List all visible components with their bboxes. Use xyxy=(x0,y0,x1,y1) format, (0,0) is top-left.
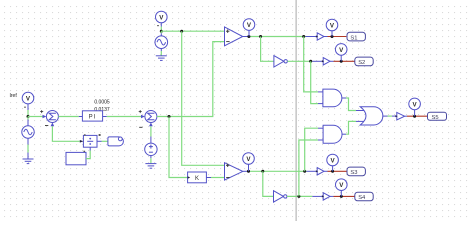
wire U8 output to tag S2 xyxy=(330,60,334,62)
summer U1 (sigma) xyxy=(46,111,58,123)
inverter U10 xyxy=(274,191,284,202)
wire U9 out down to inverter U10 xyxy=(263,171,274,196)
PI controller block xyxy=(82,111,102,121)
sheet border line xyxy=(296,0,297,221)
tag S1 xyxy=(347,32,365,41)
wire X1 to divider bottom xyxy=(86,151,90,159)
wire AND U12 output to OR input xyxy=(346,121,356,134)
svg-text:K: K xyxy=(195,176,199,182)
wire U5 branch down to AND1 top input xyxy=(304,37,318,92)
junction carrier node xyxy=(160,30,163,33)
junction U9 out inverter branch xyxy=(261,170,264,173)
wire node to summer S1 input xyxy=(28,116,43,118)
tag S3 xyxy=(347,167,365,176)
tag S2 xyxy=(355,57,373,66)
AND gate U11 xyxy=(323,89,342,107)
voltmeter probe PR5 (S2) xyxy=(335,44,347,62)
wire V2 to ground xyxy=(27,138,29,159)
junction node control xyxy=(168,115,171,118)
wire probe PR1 to node xyxy=(27,110,29,117)
wire inverter U6 output row xyxy=(287,60,312,62)
buffer U8 (S2 driver) xyxy=(323,58,330,65)
ground GND1 xyxy=(23,159,34,164)
wire divider to current clamp xyxy=(102,140,109,142)
wire V3 to ground xyxy=(150,156,152,164)
junction S1 probe xyxy=(331,35,334,38)
svg-text:Iref: Iref xyxy=(10,93,18,99)
wire OR U13 output to buffer U14 xyxy=(383,115,388,117)
junction U5 out AND branch xyxy=(302,35,305,38)
wire U5 out down to inverter U6 xyxy=(261,37,274,62)
summer U2 (sigma) xyxy=(145,111,157,123)
AC source V2 (Iref source) xyxy=(22,117,34,139)
buffer U7 (S1 driver) xyxy=(317,33,324,40)
summer U2 bottom input arrow and minus label xyxy=(149,122,153,126)
junction S5 probe xyxy=(413,115,416,118)
buffer U16 (S4 driver) xyxy=(323,193,330,200)
svg-text:S2: S2 xyxy=(358,60,365,66)
junction S3 probe xyxy=(331,170,334,173)
buffer U14 (S5 driver) xyxy=(397,112,405,120)
ground GND2 xyxy=(145,164,156,169)
current clamp probe XCP1 xyxy=(108,137,124,146)
wire AND U11 output to OR input xyxy=(346,98,356,111)
constant block X1 xyxy=(66,152,86,164)
junction U9 out probe xyxy=(247,170,250,173)
buffer U15 (S3 driver) xyxy=(317,168,324,175)
wire feedback to summer U1 minus xyxy=(52,126,79,141)
junction S2 probe xyxy=(340,60,343,63)
inverter U6 xyxy=(274,56,284,67)
voltmeter probe PR1 (Iref) xyxy=(22,92,34,110)
junction U5 out probe xyxy=(247,35,250,38)
wire inverter U10 output row xyxy=(287,195,312,197)
svg-text:0.0005: 0.0005 xyxy=(94,99,110,105)
wire control node to gain K xyxy=(169,117,188,178)
voltmeter probe PR7 (U9 output) xyxy=(243,153,255,172)
voltmeter probe PR3 (U5 output) xyxy=(243,19,255,37)
junction U9 out AND branch xyxy=(303,170,306,173)
svg-text:S4: S4 xyxy=(358,195,366,201)
voltmeter probe PR9 (S4) xyxy=(336,179,348,197)
junction U6 out AND branch xyxy=(309,60,312,63)
wire U15 output to tag S3 xyxy=(324,170,328,172)
junction U5 out inverter branch xyxy=(259,35,262,38)
svg-text:S3: S3 xyxy=(350,170,357,176)
wire U16 output to tag S4 xyxy=(330,195,334,197)
voltmeter probe PR6 (S5) xyxy=(409,98,421,116)
voltmeter probe PR8 (S3) xyxy=(327,154,339,171)
wire U10 branch up to AND2 bottom input xyxy=(299,140,318,196)
svg-text:S1: S1 xyxy=(350,35,357,41)
OR gate U13 xyxy=(360,107,383,125)
wire U7 output to tag S1 xyxy=(324,36,328,38)
wire PI to summer U2 xyxy=(103,116,107,118)
wire carrier branch down to comparator U9 plus input xyxy=(182,31,225,165)
junction S4 probe xyxy=(340,195,343,198)
DC source V3 xyxy=(145,143,157,155)
wire comparator U5 output row xyxy=(243,36,248,38)
AND gate U12 xyxy=(323,125,342,143)
junction U10 out AND branch xyxy=(297,195,300,198)
wire summer U1 to PI block xyxy=(58,116,78,118)
svg-text:S5: S5 xyxy=(432,115,439,121)
comparator U9 xyxy=(225,163,243,180)
wire U6 branch down to AND1 bottom input xyxy=(311,61,318,103)
svg-text:PI: PI xyxy=(89,115,97,121)
tag S4 xyxy=(355,192,373,201)
wire carrier node to comparator U5 plus input xyxy=(161,30,224,32)
comparator U5 xyxy=(225,27,243,46)
voltmeter probe PR2 (carrier) xyxy=(156,11,168,26)
divider block A1 xyxy=(83,135,101,150)
wire U14 output to tag S5 xyxy=(405,115,407,117)
probe PR1 polarity mark xyxy=(24,107,26,108)
wire summer U2 output to comparator U5 minus input xyxy=(157,42,225,117)
ground GND3 xyxy=(156,56,167,61)
summer U2 input arrow and plus label xyxy=(141,115,145,119)
wire U9 branch up to AND2 top input xyxy=(305,128,318,171)
junction node Iref xyxy=(27,115,30,118)
summer U1 input arrow and plus label xyxy=(43,115,47,119)
junction carrier branch xyxy=(180,30,183,33)
gain block K xyxy=(188,172,207,183)
wire probe PR2 to carrier node xyxy=(160,27,162,32)
voltmeter probe PR4 (S1) xyxy=(326,19,338,36)
wire DC source V3 to summer U2 xyxy=(150,126,152,143)
tag S5 xyxy=(428,112,447,120)
wire V1 to ground xyxy=(160,49,162,56)
summer U1 bottom input arrow and minus label xyxy=(51,122,55,126)
wire gain K to comparator U9 xyxy=(206,177,211,179)
AC source V1 (triangle carrier) xyxy=(155,31,168,48)
probe PR2 polarity mark xyxy=(157,25,159,26)
wire comparator U9 output row xyxy=(243,170,247,172)
